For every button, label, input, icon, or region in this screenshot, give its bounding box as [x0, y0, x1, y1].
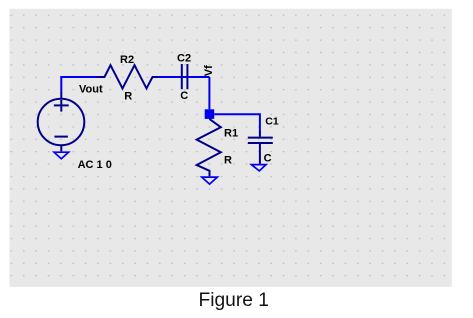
capacitor C2 [182, 64, 188, 89]
resistor R2 [97, 65, 159, 88]
ground (below R1) [202, 177, 218, 184]
resistor R1 [197, 119, 221, 176]
wire from voltage source top to resistor R2 [61, 77, 97, 93]
ground (below source) [54, 152, 69, 159]
svg-text:Vf: Vf [203, 65, 215, 76]
svg-text:AC 1 0: AC 1 0 [78, 159, 112, 171]
wire from junction to capacitor C1 [214, 114, 260, 131]
capacitor C1 [248, 131, 273, 164]
svg-text:C: C [180, 90, 188, 102]
ground (below C1) [251, 165, 266, 171]
wire from R2 through C2 to corner [159, 76, 210, 78]
svg-text:R1: R1 [224, 127, 238, 139]
svg-text:C1: C1 [265, 115, 279, 127]
svg-text:R: R [224, 155, 232, 167]
voltage source V1 [38, 93, 85, 152]
svg-text:Vout: Vout [79, 84, 103, 96]
wire from corner down to junction [208, 77, 210, 109]
node Vf junction [205, 109, 215, 119]
svg-text:R: R [124, 91, 132, 103]
svg-text:C: C [264, 153, 272, 165]
svg-text:C2: C2 [177, 52, 191, 64]
svg-text:R2: R2 [120, 54, 134, 66]
svg-text:Figure 1: Figure 1 [199, 290, 269, 311]
